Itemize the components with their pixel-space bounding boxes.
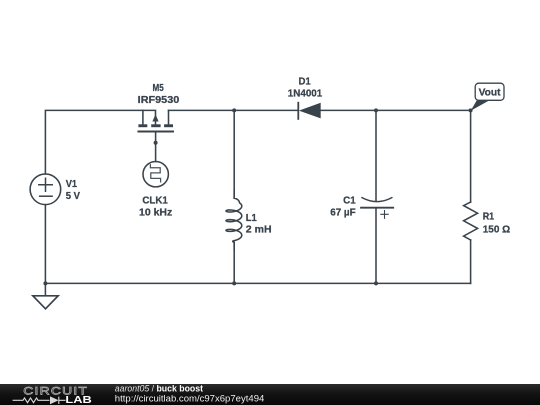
svg-text:67 µF: 67 µF [330, 208, 356, 219]
svg-text:M5: M5 [153, 83, 165, 94]
ground [33, 283, 58, 308]
svg-text:L1: L1 [246, 213, 257, 224]
wire: gate of M5 to CLK1 [155, 132, 157, 162]
wire: top rail D1 anode to Vout node [321, 109, 471, 111]
footer bar [0, 384, 540, 405]
svg-text:IRF9530: IRF9530 [138, 95, 180, 106]
svg-text:R1: R1 [483, 212, 495, 223]
inductor L1 [226, 190, 242, 250]
transistor M5 [138, 110, 173, 131]
node: C1 bottom junction [374, 281, 378, 285]
wire: R1 bottom to bottom rail [470, 240, 472, 283]
svg-text:D1: D1 [298, 76, 311, 87]
svg-text:LAB: LAB [65, 395, 91, 405]
wire: top rail to L1 [233, 110, 235, 198]
node: C1 top junction [374, 108, 378, 112]
logo resistor-diode glyph [13, 397, 66, 404]
wire: C1 bottom to bottom rail [375, 208, 377, 284]
svg-text:aaront05 / buck boost: aaront05 / buck boost [115, 384, 203, 394]
flag Vout [471, 83, 504, 111]
svg-text:C1: C1 [343, 196, 356, 207]
svg-text:CLK1: CLK1 [142, 196, 168, 207]
svg-text:5 V: 5 V [66, 191, 81, 202]
capacitor C1 [361, 198, 393, 219]
wire: top rail to C1 [375, 110, 377, 201]
diode D1 [298, 103, 320, 119]
wire: top rail M5 drain to D1 cathode [169, 109, 298, 111]
svg-text:http://circuitlab.com/c97x6p7e: http://circuitlab.com/c97x6p7eyt494 [115, 393, 264, 403]
wire: V1 negative to bottom rail [44, 205, 46, 284]
resistor R1 [464, 202, 478, 240]
wire: top rail left segment (V1+ to M5 source/body) [45, 110, 155, 173]
svg-text:2 mH: 2 mH [246, 225, 272, 236]
node: L1 bottom junction [232, 281, 236, 285]
wire: bottom rail [45, 282, 470, 284]
node: L1 top junction [232, 108, 236, 112]
svg-text:1N4001: 1N4001 [288, 89, 323, 100]
wire: Vout node down to R1 [470, 110, 472, 202]
svg-text:10 kHz: 10 kHz [139, 207, 172, 218]
clock source CLK1 [143, 162, 168, 187]
wire: L1 bottom to bottom rail [233, 243, 235, 284]
voltage source V1 [30, 174, 61, 205]
svg-text:150 Ω: 150 Ω [483, 224, 511, 235]
node: Vout junction [469, 108, 473, 112]
node: M5 gate wire junction [154, 141, 158, 145]
svg-text:V1: V1 [66, 179, 78, 190]
svg-text:Vout: Vout [479, 88, 502, 99]
node: ground junction [43, 281, 47, 285]
